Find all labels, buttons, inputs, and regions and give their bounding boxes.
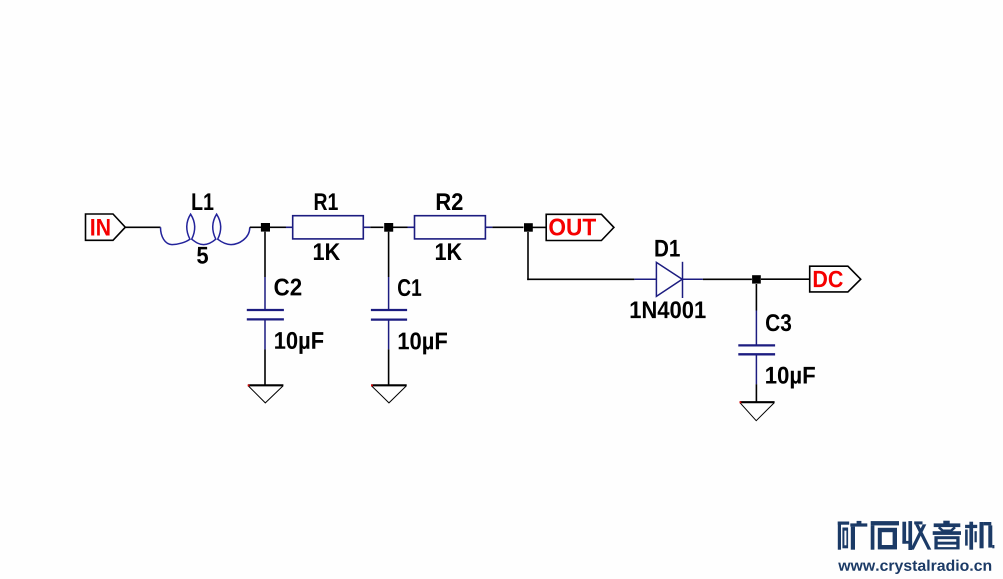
wire node D to DC [761, 278, 809, 280]
port OUT [546, 214, 614, 240]
label D1 [655, 240, 679, 257]
wire IN to L1 [125, 226, 160, 228]
label C1 [398, 279, 421, 296]
port DC [810, 266, 861, 292]
ground C3 [740, 401, 775, 420]
wire node C down and right to D1 [527, 232, 634, 280]
capacitor C3 [738, 311, 775, 385]
value 10uF C2 [275, 332, 323, 354]
value 1N4001 [631, 301, 706, 318]
watermark url [838, 560, 991, 574]
ground C1 [371, 385, 407, 403]
value 1K R2 [436, 243, 462, 260]
port IN [86, 214, 126, 240]
label R1 [315, 193, 338, 210]
value 10uF C3 [766, 367, 815, 389]
wire node C to OUT [533, 226, 547, 228]
wire node B down to C1 [388, 232, 390, 277]
watermark logo text [838, 521, 995, 550]
wire R2 to node C [492, 226, 523, 228]
wire node D down to C3 [755, 284, 757, 311]
wire C2 to ground [264, 350, 266, 386]
junction node B [384, 223, 393, 232]
label R2 [437, 193, 463, 210]
label L1 [192, 193, 213, 210]
diode D1 [634, 262, 703, 298]
label C2 [275, 279, 302, 296]
value 5 [197, 247, 208, 264]
junction node C [524, 223, 533, 232]
resistor R1 [286, 216, 370, 239]
junction node A [261, 223, 270, 232]
resistor R2 [408, 216, 493, 239]
wire node A to R1 [270, 226, 286, 228]
wire D1 to node D [703, 278, 752, 280]
wire node A down to C2 [264, 232, 266, 277]
capacitor C2 [247, 277, 284, 350]
wire R1 to node B [370, 226, 383, 228]
wire node B to R2 [392, 226, 407, 228]
ground C2 [248, 385, 284, 403]
wire C1 to ground [388, 349, 390, 385]
inductor L1 [161, 214, 250, 244]
capacitor C1 [371, 277, 407, 349]
wire C3 to ground [755, 384, 757, 402]
value 1K R1 [314, 243, 340, 260]
junction node D [752, 275, 761, 283]
wire L1 to node A [250, 226, 261, 228]
value 10uF C1 [399, 332, 447, 354]
label C3 [766, 314, 791, 331]
